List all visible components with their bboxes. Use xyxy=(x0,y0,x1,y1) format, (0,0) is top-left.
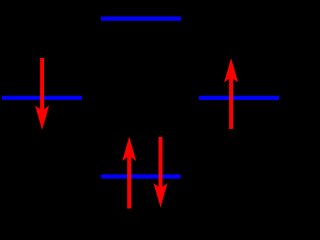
electron spin-down arrow (middle-left orbital) xyxy=(35,58,49,130)
electron spin-down arrow (bottom orbital, right) xyxy=(154,137,168,208)
energy level line (middle-right orbital) xyxy=(199,96,279,100)
energy level line (bottom orbital) xyxy=(101,174,181,178)
energy level line (middle-left orbital) xyxy=(2,96,82,100)
electron spin-up arrow (bottom orbital, left) xyxy=(122,137,136,209)
energy level line (top orbital) xyxy=(101,17,181,21)
electron spin-up arrow (middle-right orbital) xyxy=(224,58,238,129)
